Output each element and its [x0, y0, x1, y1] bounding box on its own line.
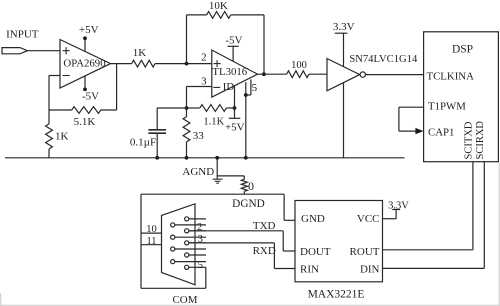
svg-text:1.1K: 1.1K — [203, 116, 224, 127]
svg-text:-5V: -5V — [225, 34, 242, 46]
svg-text:DIN: DIN — [360, 264, 380, 276]
+5V supply op-amp — [84, 38, 86, 52]
svg-text:OPA2690: OPA2690 — [63, 58, 105, 70]
svg-text:SCITXD: SCITXD — [463, 121, 474, 159]
node B junction — [185, 106, 189, 110]
wire 100 to inverter — [309, 73, 327, 75]
resistor R4 10K — [207, 12, 231, 19]
svg-text:0: 0 — [248, 179, 254, 193]
wire DGND to MAX3221E GND pin — [283, 194, 285, 220]
svg-text:MAX3221E: MAX3221E — [308, 289, 365, 301]
svg-text:DSP: DSP — [452, 43, 473, 55]
node C junction — [233, 106, 237, 110]
svg-text:100: 100 — [291, 60, 307, 71]
connector J2 COM shell — [162, 204, 196, 285]
svg-text:3: 3 — [201, 75, 207, 87]
svg-text:10K: 10K — [209, 0, 228, 12]
svg-text:+5V: +5V — [225, 122, 245, 134]
capacitor C1 0.1uF — [148, 129, 166, 131]
wire DGND left drop to COM shell — [140, 194, 142, 245]
DB9 pins left column — [171, 223, 175, 227]
svg-text:ROUT: ROUT — [350, 246, 380, 258]
node D output junction — [262, 72, 266, 76]
svg-text:3.3V: 3.3V — [333, 21, 355, 33]
-5V supply op-amp — [84, 76, 86, 90]
resistor R7 100 — [287, 71, 309, 78]
wire op-amp output — [111, 63, 132, 65]
wire inverting input — [49, 75, 60, 77]
svg-text:RIN: RIN — [300, 264, 319, 276]
DGND rail — [141, 193, 284, 195]
svg-text:CAP1: CAP1 — [428, 126, 454, 138]
wire 10K left vertical — [186, 15, 188, 64]
pin 5 bracket TL3016 — [245, 82, 247, 95]
svg-text:1K: 1K — [133, 47, 147, 59]
svg-text:33: 33 — [193, 130, 205, 142]
resistor R5 1.1K — [200, 105, 227, 112]
svg-text:RXD: RXD — [253, 245, 276, 257]
wire shell ground path — [140, 245, 142, 289]
node A junction — [185, 62, 189, 66]
DB9 pins right column — [185, 217, 189, 221]
wire pin5 to ground bus — [245, 95, 247, 158]
inverter U3 SN74LVC1G14 — [327, 59, 360, 91]
scan edge artifact bottom — [0, 304, 500, 306]
svg-text:TL3016: TL3016 — [212, 66, 247, 78]
svg-text:VCC: VCC — [357, 213, 380, 225]
node AGND stub — [216, 158, 218, 179]
wire AGND to 0 ohm — [217, 175, 244, 177]
resistor R6 33 to ground — [183, 117, 190, 142]
svg-text:T1PWM: T1PWM — [428, 101, 466, 113]
svg-text:1K: 1K — [55, 131, 69, 143]
svg-text:ID: ID — [223, 81, 235, 93]
arrowhead into CAP1 — [415, 128, 423, 134]
input connector J-IN — [2, 48, 28, 54]
resistor R3 1K series — [132, 60, 155, 67]
svg-text:COM: COM — [172, 294, 197, 306]
+5V supply TL3016 — [229, 117, 241, 119]
svg-text:5.1K: 5.1K — [74, 116, 96, 128]
wire +5V leg from comparator edge — [234, 86, 236, 118]
resistor R2 5.1K feedback — [72, 107, 101, 114]
ground symbol AGND — [213, 179, 223, 183]
wire input to op-amp noninverting input — [28, 50, 61, 52]
wire ROUT to DSP SCITXD — [383, 249, 473, 251]
wire inverter output to DSP — [366, 74, 424, 76]
analog ground bus — [5, 157, 405, 159]
svg-text:2: 2 — [201, 52, 207, 64]
op-amp U1 OPA2690 — [60, 40, 111, 89]
wire feedback right vertical — [116, 64, 118, 110]
svg-text:3.3V: 3.3V — [388, 200, 409, 211]
wire R3 to comparator — [155, 63, 212, 65]
svg-text:0.1µF: 0.1µF — [130, 136, 156, 148]
IC U4 MAX3221E box — [295, 201, 383, 282]
wire inverter ground leg to bus — [343, 83, 345, 158]
svg-text:GND: GND — [301, 213, 325, 225]
resistor R8 0 ohm — [241, 179, 247, 191]
wire 10K right vertical — [263, 15, 265, 74]
svg-text:5: 5 — [252, 82, 258, 94]
svg-text:SCIRXD: SCIRXD — [475, 121, 486, 160]
wire capacitor branch — [157, 107, 186, 109]
svg-text:2: 2 — [197, 222, 202, 233]
svg-text:AGND: AGND — [182, 166, 214, 178]
IC U5 DSP box — [424, 32, 499, 162]
svg-text:-5V: -5V — [82, 90, 99, 102]
wire T1PWM to CAP1 loop — [399, 106, 424, 108]
resistor R1 1K to ground — [46, 124, 53, 149]
svg-text:+5V: +5V — [79, 24, 99, 36]
svg-text:TCLKINA: TCLKINA — [427, 70, 475, 82]
scan edge artifact right — [498, 163, 500, 306]
comparator U2 TL3016 — [212, 50, 258, 97]
wire DIN to DSP SCIRXD — [383, 267, 485, 269]
svg-text:SN74LVC1G14: SN74LVC1G14 — [349, 54, 418, 65]
3.3V supply MAX3221E — [383, 218, 397, 220]
svg-text:DGND: DGND — [232, 198, 265, 210]
DB9 pin stub wires — [189, 218, 206, 220]
svg-text:INPUT: INPUT — [6, 29, 39, 41]
wire pin3 inverting input — [187, 86, 212, 88]
svg-text:5: 5 — [198, 260, 203, 271]
svg-text:DOUT: DOUT — [300, 246, 331, 258]
wire comparator output — [258, 73, 287, 75]
